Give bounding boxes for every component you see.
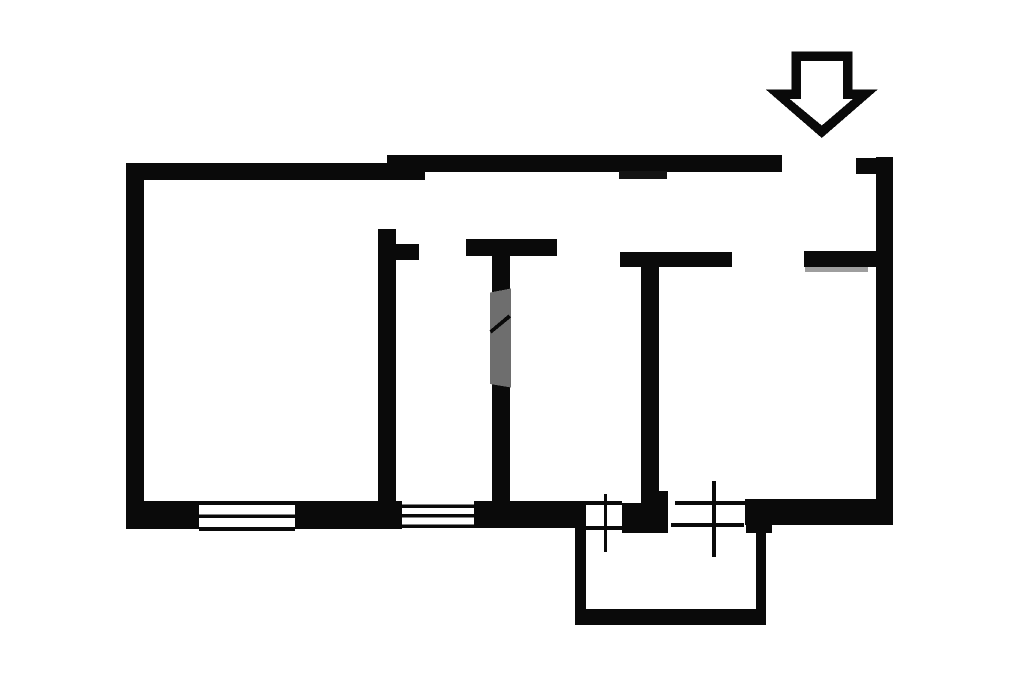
balcony window W3 sill line [575,526,622,530]
window W2 middle line [402,514,474,518]
watermark diagonal tick [490,315,512,334]
window W1 top line [199,501,295,505]
interior wall P2 stem [492,256,510,501]
balcony window W3 cross mark [604,494,607,552]
interior wall P1 stub [395,244,419,260]
bottom exterior wall segment B [295,501,402,529]
bottom exterior wall segment C [474,501,586,528]
right exterior wall [876,157,893,523]
entrance arrow inner head [790,99,853,125]
balcony bottom wall [575,609,766,625]
balcony door bottom line [671,523,744,527]
top exterior wall left section [126,163,425,180]
balcony window W3 top line [586,501,622,505]
left exterior wall [126,163,144,529]
bottom exterior wall segment A (left corner) [126,501,199,529]
wall pier between balcony window and door [622,503,668,533]
hallway wall shadow [805,267,868,272]
interior wall P3 top bar [620,252,732,267]
window W1 middle line [199,515,295,519]
window W2 bottom line [402,524,474,528]
interior wall P1 vertical [378,229,396,501]
entrance arrow outline [766,52,878,138]
window W2 top line [402,505,474,508]
top wall thickening bump [619,171,667,179]
interior wall P2 top bar [466,239,557,256]
window W1 bottom line [199,527,295,531]
entrance arrow inner shaft [801,61,843,100]
pier top bump [658,491,668,504]
hallway wall at entrance [804,251,876,267]
watermark gray patch on P2 stem [490,289,511,388]
balcony right wall junction block [746,521,772,533]
balcony door cross mark [712,481,716,557]
top exterior wall right section [387,155,782,172]
top-right wall stub at entrance [856,158,893,174]
bottom exterior wall segment D (right corner) [745,499,893,525]
interior wall P3 stem [641,267,659,505]
balcony door top line [675,501,748,505]
balcony right wall [756,522,766,625]
balcony left wall [575,525,586,625]
